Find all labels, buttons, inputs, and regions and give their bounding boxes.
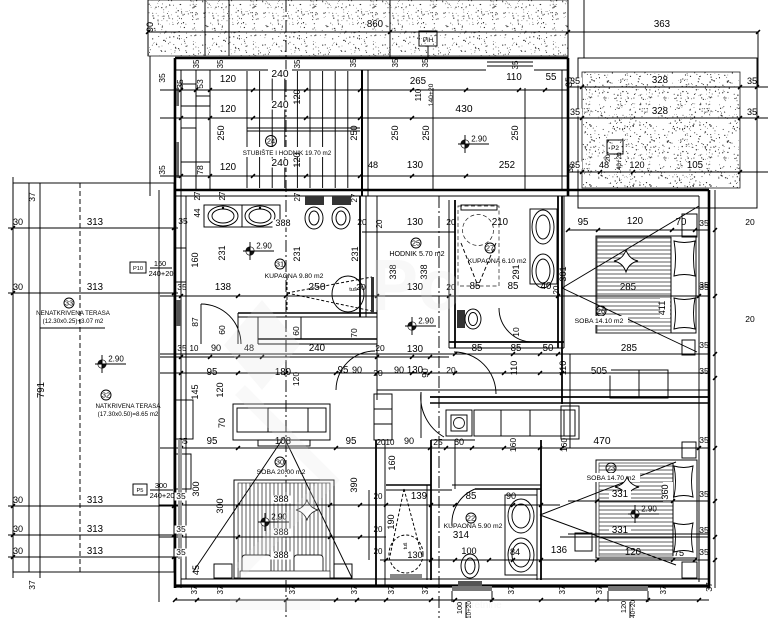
svg-text:250: 250 bbox=[349, 125, 359, 140]
svg-text:32: 32 bbox=[102, 390, 110, 399]
svg-text:136: 136 bbox=[551, 545, 567, 556]
svg-text:35: 35 bbox=[157, 73, 167, 83]
svg-text:139: 139 bbox=[411, 491, 427, 502]
svg-text:20: 20 bbox=[373, 368, 383, 378]
svg-text:35: 35 bbox=[176, 547, 186, 557]
svg-text:120: 120 bbox=[220, 162, 237, 173]
svg-text:860: 860 bbox=[367, 19, 384, 30]
svg-text:90: 90 bbox=[145, 22, 155, 32]
svg-text:140+20: 140+20 bbox=[428, 83, 435, 106]
svg-text:85: 85 bbox=[466, 491, 477, 502]
svg-text:35: 35 bbox=[699, 489, 709, 499]
svg-text:37: 37 bbox=[216, 585, 225, 594]
svg-text:35: 35 bbox=[565, 163, 575, 173]
svg-text:190: 190 bbox=[386, 514, 396, 529]
svg-text:30: 30 bbox=[13, 217, 23, 227]
svg-text:291: 291 bbox=[511, 264, 521, 279]
svg-text:27: 27 bbox=[293, 192, 302, 201]
svg-text:160: 160 bbox=[190, 252, 200, 267]
svg-text:252: 252 bbox=[499, 160, 515, 171]
svg-text:20: 20 bbox=[446, 365, 456, 375]
svg-text:35: 35 bbox=[391, 58, 400, 67]
svg-text:27: 27 bbox=[218, 191, 227, 200]
svg-text:30: 30 bbox=[276, 457, 284, 466]
svg-text:90: 90 bbox=[394, 365, 404, 375]
svg-text:37: 37 bbox=[387, 585, 396, 594]
svg-text:314: 314 bbox=[453, 530, 470, 541]
svg-text:25: 25 bbox=[433, 437, 443, 447]
svg-text:40+20: 40+20 bbox=[630, 600, 637, 618]
svg-text:37: 37 bbox=[288, 585, 297, 594]
svg-text:44: 44 bbox=[193, 208, 202, 217]
svg-text:84: 84 bbox=[510, 547, 520, 557]
svg-text:85: 85 bbox=[472, 343, 483, 354]
svg-text:313: 313 bbox=[87, 546, 103, 557]
svg-text:27: 27 bbox=[486, 243, 494, 252]
svg-text:388: 388 bbox=[273, 494, 288, 504]
svg-text:85: 85 bbox=[511, 343, 522, 354]
svg-text:285: 285 bbox=[621, 343, 637, 354]
svg-text:20: 20 bbox=[374, 547, 383, 556]
svg-text:30: 30 bbox=[13, 495, 23, 505]
svg-text:35: 35 bbox=[175, 79, 185, 89]
svg-text:SOBA 14.10 m2: SOBA 14.10 m2 bbox=[575, 318, 624, 325]
svg-text:130: 130 bbox=[407, 217, 424, 228]
svg-text:35: 35 bbox=[699, 218, 709, 228]
svg-text:NENATKRIVENA TERASA: NENATKRIVENA TERASA bbox=[36, 310, 111, 317]
svg-text:KUPAONA 6.10 m2: KUPAONA 6.10 m2 bbox=[468, 258, 527, 265]
svg-text:231: 231 bbox=[292, 246, 302, 261]
svg-text:26: 26 bbox=[597, 306, 605, 315]
svg-text:20: 20 bbox=[745, 314, 755, 324]
svg-text:120: 120 bbox=[292, 152, 302, 167]
svg-text:95: 95 bbox=[207, 367, 218, 378]
svg-text:70: 70 bbox=[217, 418, 227, 428]
svg-text:87: 87 bbox=[190, 317, 200, 327]
svg-text:250: 250 bbox=[216, 125, 226, 140]
svg-text:NATKRIVENA TERASA: NATKRIVENA TERASA bbox=[95, 403, 161, 410]
svg-text:2.90: 2.90 bbox=[108, 355, 124, 364]
svg-text:90: 90 bbox=[211, 343, 221, 353]
svg-text:430: 430 bbox=[455, 104, 472, 115]
svg-text:35: 35 bbox=[747, 76, 757, 86]
svg-text:35: 35 bbox=[511, 60, 520, 69]
svg-text:90: 90 bbox=[352, 365, 362, 375]
svg-text:53: 53 bbox=[195, 79, 205, 89]
svg-text:20: 20 bbox=[446, 217, 456, 227]
svg-text:37: 37 bbox=[27, 580, 37, 590]
svg-text:388: 388 bbox=[275, 218, 290, 228]
svg-text:130: 130 bbox=[407, 344, 424, 355]
svg-text:P2: P2 bbox=[611, 145, 619, 152]
svg-text:60: 60 bbox=[291, 326, 301, 336]
svg-text:313: 313 bbox=[87, 217, 103, 228]
svg-text:10: 10 bbox=[386, 438, 395, 447]
svg-text:231: 231 bbox=[350, 246, 360, 261]
svg-text:27: 27 bbox=[350, 193, 359, 202]
svg-text:120: 120 bbox=[220, 104, 237, 115]
svg-text:(12.30x0.25)+3.07 m2: (12.30x0.25)+3.07 m2 bbox=[43, 318, 104, 325]
svg-text:24: 24 bbox=[267, 136, 275, 145]
svg-text:2.90: 2.90 bbox=[641, 505, 657, 514]
svg-text:35: 35 bbox=[176, 524, 186, 534]
svg-text:35: 35 bbox=[192, 59, 201, 68]
svg-text:120: 120 bbox=[629, 160, 644, 170]
svg-text:120: 120 bbox=[220, 74, 237, 85]
svg-text:20: 20 bbox=[357, 217, 367, 227]
svg-text:411: 411 bbox=[657, 301, 667, 316]
svg-text:2.90: 2.90 bbox=[471, 135, 487, 144]
svg-text:35: 35 bbox=[699, 280, 709, 290]
svg-text:90: 90 bbox=[506, 491, 516, 501]
svg-text:160: 160 bbox=[508, 438, 518, 452]
svg-text:35: 35 bbox=[349, 58, 358, 67]
svg-text:301: 301 bbox=[558, 266, 568, 281]
svg-text:300: 300 bbox=[215, 498, 225, 513]
svg-text:35: 35 bbox=[570, 107, 580, 117]
svg-text:388: 388 bbox=[273, 550, 288, 560]
svg-text:110: 110 bbox=[506, 72, 522, 83]
svg-text:265: 265 bbox=[410, 76, 426, 87]
svg-text:55: 55 bbox=[546, 72, 557, 83]
svg-text:140+20: 140+20 bbox=[616, 152, 623, 174]
svg-text:60: 60 bbox=[217, 325, 227, 335]
svg-text:250: 250 bbox=[390, 125, 400, 140]
svg-text:tuš: tuš bbox=[403, 542, 409, 549]
svg-text:120: 120 bbox=[619, 601, 628, 613]
svg-text:328: 328 bbox=[652, 106, 668, 117]
svg-text:78: 78 bbox=[195, 165, 205, 175]
svg-text:35: 35 bbox=[421, 58, 430, 67]
svg-text:35: 35 bbox=[157, 165, 167, 175]
svg-text:STUBIŠTE I HODNIK 19.70 m2: STUBIŠTE I HODNIK 19.70 m2 bbox=[243, 148, 332, 157]
svg-text:250: 250 bbox=[308, 282, 325, 293]
svg-text:35: 35 bbox=[178, 216, 188, 226]
svg-text:85: 85 bbox=[508, 281, 519, 292]
svg-text:90: 90 bbox=[404, 436, 414, 446]
svg-text:90: 90 bbox=[420, 368, 430, 378]
svg-text:300: 300 bbox=[191, 481, 201, 496]
svg-text:20: 20 bbox=[374, 525, 383, 534]
svg-text:37: 37 bbox=[190, 585, 199, 594]
svg-text:35: 35 bbox=[177, 343, 187, 353]
svg-text:240: 240 bbox=[271, 158, 288, 169]
svg-text:45: 45 bbox=[191, 565, 201, 575]
svg-text:95: 95 bbox=[578, 217, 589, 228]
svg-text:130: 130 bbox=[407, 550, 422, 560]
svg-text:240: 240 bbox=[271, 100, 288, 111]
svg-text:35: 35 bbox=[293, 59, 302, 68]
svg-text:P10: P10 bbox=[133, 266, 143, 272]
svg-text:20: 20 bbox=[552, 285, 561, 294]
svg-text:505: 505 bbox=[591, 366, 607, 377]
svg-text:331: 331 bbox=[612, 489, 628, 500]
svg-text:23: 23 bbox=[607, 463, 615, 472]
svg-text:360: 360 bbox=[660, 484, 670, 499]
svg-text:33: 33 bbox=[65, 298, 73, 307]
svg-text:120: 120 bbox=[215, 382, 225, 397]
svg-text:70: 70 bbox=[349, 328, 359, 338]
svg-text:120: 120 bbox=[291, 372, 301, 386]
svg-text:48: 48 bbox=[368, 160, 378, 170]
svg-text:31: 31 bbox=[276, 259, 284, 268]
svg-text:PIH: PIH bbox=[423, 37, 434, 44]
svg-text:328: 328 bbox=[652, 75, 668, 86]
svg-text:37: 37 bbox=[507, 585, 516, 594]
svg-text:160: 160 bbox=[559, 438, 569, 452]
svg-text:85: 85 bbox=[470, 281, 481, 292]
svg-text:95: 95 bbox=[207, 436, 218, 447]
svg-text:20: 20 bbox=[745, 217, 755, 227]
svg-text:250: 250 bbox=[510, 125, 520, 140]
svg-text:Po: Po bbox=[370, 246, 462, 326]
svg-text:240+20: 240+20 bbox=[150, 491, 175, 500]
svg-text:35: 35 bbox=[747, 107, 757, 117]
svg-text:138: 138 bbox=[215, 282, 231, 293]
svg-text:10: 10 bbox=[190, 344, 199, 353]
svg-text:(17.30x0.50)=8.65 m2: (17.30x0.50)=8.65 m2 bbox=[98, 411, 159, 418]
svg-text:37: 37 bbox=[27, 192, 37, 202]
svg-text:95: 95 bbox=[346, 436, 357, 447]
svg-text:313: 313 bbox=[87, 495, 103, 506]
svg-text:20: 20 bbox=[374, 492, 383, 501]
svg-text:22: 22 bbox=[467, 513, 475, 522]
svg-text:37: 37 bbox=[350, 585, 359, 594]
svg-text:100: 100 bbox=[461, 546, 476, 556]
svg-text:37: 37 bbox=[421, 585, 430, 594]
svg-text:105: 105 bbox=[687, 160, 703, 171]
svg-text:27: 27 bbox=[193, 191, 202, 200]
svg-text:35: 35 bbox=[699, 547, 709, 557]
svg-text:48: 48 bbox=[599, 160, 609, 170]
svg-text:390: 390 bbox=[349, 477, 359, 492]
svg-text:nekretnine: nekretnine bbox=[455, 600, 502, 611]
svg-text:145: 145 bbox=[190, 384, 200, 399]
svg-text:300: 300 bbox=[155, 481, 167, 490]
svg-text:120: 120 bbox=[627, 216, 644, 227]
svg-text:KUPAONA 5.90 m2: KUPAONA 5.90 m2 bbox=[444, 523, 503, 530]
svg-text:30: 30 bbox=[13, 524, 23, 534]
svg-text:160: 160 bbox=[387, 455, 397, 470]
svg-text:2.90: 2.90 bbox=[256, 242, 272, 251]
svg-text:231: 231 bbox=[217, 245, 227, 260]
svg-text:50: 50 bbox=[543, 343, 554, 354]
svg-text:20: 20 bbox=[356, 282, 366, 292]
svg-text:35: 35 bbox=[176, 491, 186, 501]
svg-text:37: 37 bbox=[659, 585, 668, 594]
svg-text:70: 70 bbox=[676, 217, 687, 228]
svg-text:37: 37 bbox=[558, 585, 567, 594]
svg-text:210: 210 bbox=[492, 217, 509, 228]
svg-text:35: 35 bbox=[699, 340, 709, 350]
svg-text:363: 363 bbox=[654, 19, 670, 30]
svg-text:P5: P5 bbox=[137, 488, 144, 494]
svg-text:37: 37 bbox=[704, 582, 714, 592]
svg-text:313: 313 bbox=[87, 282, 103, 293]
svg-text:791: 791 bbox=[36, 382, 47, 398]
svg-text:35: 35 bbox=[216, 59, 225, 68]
svg-text:35: 35 bbox=[564, 77, 574, 87]
svg-text:SOBA 20.00 m2: SOBA 20.00 m2 bbox=[257, 469, 306, 476]
svg-text:240: 240 bbox=[271, 69, 288, 80]
svg-text:20: 20 bbox=[375, 219, 384, 228]
svg-text:160: 160 bbox=[154, 259, 166, 268]
svg-text:240+20: 240+20 bbox=[149, 269, 174, 278]
svg-text:30: 30 bbox=[13, 282, 23, 292]
svg-text:35: 35 bbox=[699, 525, 709, 535]
svg-text:35: 35 bbox=[177, 282, 187, 292]
svg-text:37: 37 bbox=[595, 585, 604, 594]
svg-text:KUPAONA 9.80 m2: KUPAONA 9.80 m2 bbox=[265, 273, 324, 280]
svg-text:130: 130 bbox=[407, 160, 424, 171]
svg-text:470: 470 bbox=[593, 436, 610, 447]
svg-text:30: 30 bbox=[13, 546, 23, 556]
svg-text:35: 35 bbox=[699, 435, 709, 445]
svg-text:313: 313 bbox=[87, 524, 103, 535]
svg-text:35: 35 bbox=[699, 366, 709, 376]
svg-text:240: 240 bbox=[309, 343, 326, 354]
svg-text:20: 20 bbox=[375, 343, 385, 353]
svg-text:120: 120 bbox=[292, 89, 302, 104]
svg-text:250: 250 bbox=[421, 125, 431, 140]
